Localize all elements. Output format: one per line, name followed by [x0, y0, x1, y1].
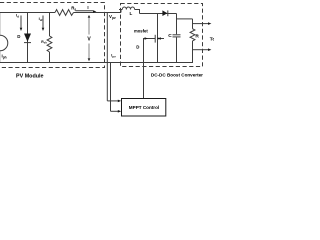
MPPT control box — [122, 99, 166, 117]
label Ish — [39, 16, 44, 22]
svg-text:L: L — [130, 11, 133, 16]
label Id — [16, 13, 19, 19]
label I — [87, 5, 88, 10]
MPPT input arrow Ipv — [111, 110, 122, 113]
svg-text:PV Module: PV Module — [16, 73, 44, 79]
MPPT input arrow Vpv — [107, 100, 121, 103]
svg-text:To: To — [210, 36, 214, 42]
label mosfet — [134, 28, 148, 33]
wire link PV to boost top — [119, 10, 122, 13]
wire top bus PV — [0, 12, 121, 14]
resistor R branch — [190, 19, 195, 63]
mosfet Q1 — [155, 14, 164, 64]
svg-text:DC-DC Boost Converter: DC-DC Boost Converter — [151, 73, 203, 78]
output arrow top — [193, 22, 212, 25]
svg-text:Rsh: Rsh — [41, 40, 47, 45]
svg-text:Iph: Iph — [2, 54, 7, 60]
svg-text:C: C — [168, 33, 172, 39]
label Ipv — [111, 54, 116, 59]
inductor L — [122, 7, 139, 14]
capacitor C branch — [173, 14, 181, 64]
label Vpv — [109, 14, 116, 20]
label Iph — [2, 54, 7, 60]
current arrow Ish — [42, 16, 45, 32]
svg-text:V: V — [87, 36, 91, 42]
label Rs — [71, 5, 76, 11]
svg-text:Ipv: Ipv — [111, 54, 116, 59]
svg-text:D: D — [136, 44, 139, 49]
wire cap to R — [177, 18, 193, 20]
wire bottom bus — [0, 62, 193, 64]
diode D wire — [27, 13, 29, 64]
svg-text:mosfet: mosfet — [134, 28, 148, 33]
PV module dashed box — [0, 3, 104, 68]
DC-DC boost converter dashed box — [121, 4, 203, 67]
current arrow I — [76, 10, 97, 13]
label V — [87, 36, 91, 42]
label PV Module — [16, 73, 44, 79]
gate drive wire D — [144, 37, 156, 98]
label D — [17, 34, 20, 39]
svg-text:Id: Id — [16, 13, 19, 19]
current arrow Id — [20, 16, 23, 32]
voltage arrow V — [88, 15, 91, 61]
svg-text:R: R — [195, 33, 199, 39]
svg-text:D: D — [17, 34, 20, 39]
resistor Rs — [55, 10, 74, 16]
resistor Rsh branch wire top — [49, 13, 51, 37]
label DC-DC Boost Converter — [151, 73, 203, 78]
node Ipv tap wire — [110, 63, 112, 112]
output arrow bottom — [193, 48, 212, 51]
label Rsh — [41, 40, 47, 45]
svg-text:MPPT Control: MPPT Control — [129, 105, 159, 110]
label L — [130, 11, 133, 16]
resistor Rsh branch wire bottom — [49, 52, 51, 63]
diode D — [24, 34, 31, 43]
label R — [195, 33, 199, 39]
svg-text:Vpv: Vpv — [109, 14, 116, 20]
node Vpv tap — [106, 13, 108, 101]
wire boost top — [140, 13, 177, 15]
label D duty — [136, 44, 139, 49]
svg-text:I: I — [87, 5, 88, 10]
label To — [210, 36, 216, 42]
diode D1 boost — [162, 10, 167, 16]
resistor Rsh — [47, 36, 52, 52]
current source Iph — [0, 13, 8, 64]
label C — [168, 33, 172, 39]
